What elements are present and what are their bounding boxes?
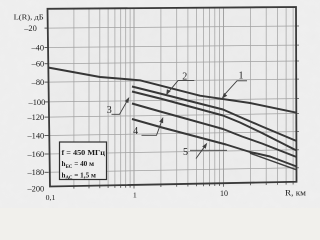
curve 3	[132, 92, 297, 151]
grid: horizontal 20dB lines	[48, 26, 296, 28]
label 2 leader	[167, 80, 194, 93]
curve 5	[132, 119, 297, 167]
label 3 leader	[112, 99, 129, 115]
axis ticks right	[296, 25, 299, 27]
curve 1 (free space)	[48, 68, 297, 113]
curve 2	[132, 87, 297, 142]
curve 4	[132, 104, 297, 158]
axis ticks left	[45, 27, 49, 29]
label 5 leader	[190, 149, 227, 151]
grid: vertical log lines	[73, 9, 75, 186]
parameter box	[60, 142, 107, 180]
plot frame	[48, 7, 297, 187]
curve 5 lower twin (scan artifact)	[250, 153, 297, 170]
axis ticks bottom	[73, 186, 75, 189]
label 4 leader	[142, 119, 163, 136]
label 1 leader	[224, 81, 248, 96]
